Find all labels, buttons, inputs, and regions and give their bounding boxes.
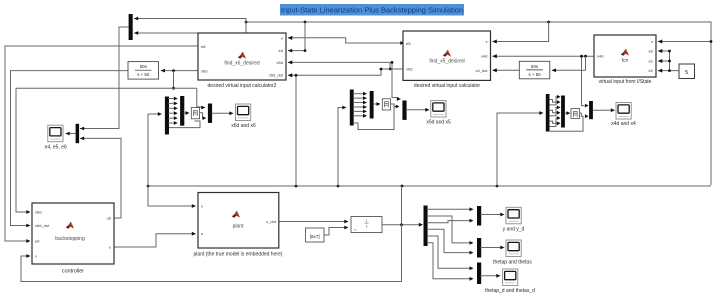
mux X2b [370,91,374,119]
wire branch to find_x6 e4 port [288,22,306,53]
scope thetap and thetas [493,240,532,266]
wire x5d to find_x6 x5d port [288,61,403,71]
demux D2 [350,90,354,126]
wire branch to mux X2c top [391,61,401,101]
mux X6 [477,238,481,258]
svg-text:plant: plant [233,224,244,230]
wires demux D1 to mux X1b [168,97,178,125]
wire integrator out to demux D4 [382,223,423,227]
mux X3b [561,96,565,128]
svg-text:50s: 50s [531,64,539,69]
wire mux X5 to scope y [481,213,505,217]
svg-text:x6d and x6: x6d and x6 [231,123,256,129]
svg-text:x4d and x4: x4d and x4 [611,121,636,127]
svg-text:e4, e5, e6: e4, e5, e6 [45,144,67,150]
block find_x6_desired (desired virtual input calculator2) [198,33,292,89]
constant 5 [679,64,695,79]
wire mux X3c to scope3 [593,108,615,112]
mux X2c [402,101,406,120]
svg-text:1: 1 [366,219,368,223]
svg-text:desired virtual input calculat: desired virtual input calculator [414,83,480,89]
svg-text:e5: e5 [406,41,411,46]
mux M1 [129,14,133,40]
svg-text:[6x7]: [6x7] [310,234,320,239]
svg-text:virtual input from I/State: virtual input from I/State [599,79,652,85]
svg-text:x6d_dot: x6d_dot [35,223,50,228]
wire mux X1b to selector S1 [184,111,190,115]
svg-text:x4d: x4d [597,54,603,59]
wire x5d_dot branch down [295,74,298,186]
wire mux X2b to selector S2 [373,102,381,106]
svg-text:x6d: x6d [35,210,41,215]
svg-text:x_dot: x_dot [266,219,277,224]
wire e456 mux to scope [66,132,76,136]
svg-text:s + 50: s + 50 [529,72,542,77]
wire x4d branch to mux X3c [580,55,588,108]
wire branch to find_x5 x port [493,22,549,43]
svg-text:e6: e6 [201,44,206,49]
wire mux M1 second input [134,22,246,35]
wires demux D4 to output muxes [427,207,474,280]
wire state x mid line y186 [147,185,711,188]
wire x5d_dot to find_x6 [288,68,390,78]
wire constant5 to fcn e-ports [658,49,679,72]
svg-text:x5d and x5: x5d and x5 [426,119,451,125]
svg-text:y and y_d: y and y_d [503,226,525,232]
mux Me for e4 e5 e6 [76,124,80,143]
svg-text:find_x5_desired: find_x5_desired [429,59,465,65]
selector S1 [191,108,199,119]
wire loop demux D2 bottom [353,107,394,130]
selector S3 [571,109,580,119]
svg-text:e0: e0 [649,48,654,53]
wire x6d to TF1 [161,69,198,73]
demux D3 [546,94,550,132]
wire state x top line [245,21,711,185]
svg-text:x6d: x6d [201,69,207,74]
svg-text:x5d: x5d [277,60,283,65]
wire x6d horizontal y88 [16,87,197,89]
demux D4 [424,206,428,247]
transfer fn TF1 50s/(s+50) [128,62,159,80]
svg-text:backstepping: backstepping [55,236,85,242]
block backstepping controller [32,203,114,275]
wire controller out1 to e-mux [80,137,121,219]
wire 6x7 to integrator [324,226,349,235]
block find_x5_desired (desired virtual input calculator) [403,31,497,89]
svg-text:u6: u6 [107,216,112,221]
mux X7 [477,263,481,285]
selector S2 [382,99,390,110]
wire state feedback bottom [21,225,402,282]
scope thetap_d and thetas_d [485,269,535,294]
wire selector S3 to mux X3c [580,113,589,118]
svg-text:x5d: x5d [406,67,412,72]
wire mux M1 output down [80,27,129,130]
wire x4d from fcn to find_x5 [493,54,595,58]
wire fcn x input from right bus [658,40,712,44]
wire selector S2 to mux X2c [391,104,400,108]
svg-text:Input-State Linearization Plus: Input-State Linearization Plus Backstepp… [281,6,463,15]
transfer fn TF2 50s/(s+50) [519,61,550,79]
svg-text:plant (the true model is embed: plant (the true model is embedded here) [194,251,283,257]
svg-text:x: x [486,39,488,44]
scope x5d and x5 [426,101,451,126]
wires demux D2 to mux X2b [353,92,367,118]
svg-text:thetap_d and thetas_d: thetap_d and thetas_d [485,288,535,294]
svg-text:x4d: x4d [481,54,487,59]
svg-text:x5d_dot: x5d_dot [269,73,284,78]
block fcn (virtual input from I/State) [594,35,662,85]
title annotation Input-State Linearization Plus Backstepping Simulation [280,4,464,16]
wire state riser x402 [401,186,403,225]
wire mux X3b to selector S3 [565,111,571,115]
svg-text:x: x [281,36,283,41]
wire TF2 output to x4_dot [493,68,520,72]
wire x4d to TF2 input [552,56,586,72]
wire e6 from find_x6 to controller [5,46,198,243]
svg-text:e1: e1 [649,58,654,63]
svg-text:x: x [35,254,37,259]
wire mux X6 to scope thetap [481,246,505,250]
wire state riser to demux D3 [497,111,544,186]
wire into demux D1 [148,112,162,116]
svg-text:50s: 50s [140,64,148,69]
scope x6d and x6 [231,104,256,129]
mux X1c [208,104,212,123]
wire controller out2 to plant u [114,232,196,247]
block plant [194,193,283,258]
wire loop demux D1 bottom [168,121,200,128]
svg-text:e2: e2 [649,68,654,73]
svg-text:x: x [651,39,653,44]
svg-text:5: 5 [685,70,688,76]
wire loop demux D3 bottom [550,116,584,131]
svg-text:s + 50: s + 50 [137,72,150,77]
integrator block 1/s [351,217,382,233]
constant [6x7] [305,228,324,242]
wire x6d branch to mux X1c [197,88,206,109]
wire TF1 output to left rail [11,71,129,228]
svg-text:desired virtual input calculat: desired virtual input calculator2 [208,83,277,89]
svg-text:find_x6_desired: find_x6_desired [224,61,260,67]
scope e4 e5 e6 [45,125,67,150]
svg-text:u: u [109,245,111,250]
wire x6d branch down [172,71,175,90]
demux D1 [165,97,169,135]
wire x6d left rail to controller [16,88,31,214]
scope x4d and x4 [611,103,636,127]
svg-text:u: u [201,231,203,236]
wire mux M1 first input [134,17,246,22]
wire selector S1 to mux X1c [200,113,207,120]
wire state riser to demux D2 [338,106,347,186]
scope y and y_d [503,207,525,232]
svg-text:e6: e6 [35,239,40,244]
svg-text:x4_dot: x4_dot [475,68,488,73]
svg-text:x: x [201,204,203,209]
wire mux X1c to scope1 [211,111,233,115]
mux X5 [477,206,481,226]
wires demux D3 to mux X3b crossing [550,95,561,127]
mux X1b [180,96,184,126]
svg-text:thetap and thetas: thetap and thetas [493,260,532,266]
svg-text:controller: controller [62,269,84,275]
wire plant x_dot to integrator [279,220,349,224]
wire mux X7 to scope thetap_d [481,274,501,278]
svg-text:fcn: fcn [622,58,629,64]
wire e5 route [288,36,405,45]
mux X3c [589,101,593,119]
wire mux X2c to scope2 [406,108,430,112]
wire state riser x148 [148,114,196,208]
svg-text:e4: e4 [279,48,284,53]
